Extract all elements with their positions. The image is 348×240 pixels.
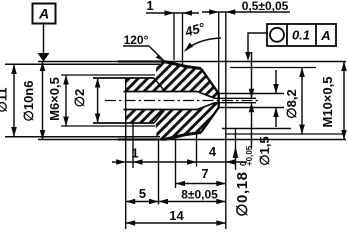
bore diam2 top [124, 91, 198, 93]
tolerance frame leader with arrow [248, 33, 267, 58]
hatched section lower left band [126, 110, 166, 124]
counterbore bottom face (orifice plate) [217, 94, 219, 108]
svg-text:∅0,18: ∅0,18 [234, 171, 251, 216]
svg-text:0.1: 0.1 [292, 28, 310, 43]
top dimension 1: extension lines [173, 13, 175, 60]
bottom row4: dim 14 [126, 222, 226, 224]
svg-text:14: 14 [169, 208, 184, 223]
tolerance frame [267, 24, 336, 46]
diam8.2 extension top [230, 67, 316, 69]
extension line dim 1 right [132, 123, 134, 168]
dimension diam2 line with arrows [97, 78, 99, 123]
45deg leader arc with arrow [185, 38, 221, 51]
svg-text:0,5±0,05: 0,5±0,05 [242, 0, 289, 13]
svg-text:120°: 120° [124, 33, 149, 47]
M6 hole line bottom [93, 122, 154, 124]
extension line diam10n6 bottom long [38, 139, 346, 141]
extension line thread end [158, 140, 160, 205]
centerline [105, 100, 258, 102]
datum A filled triangle [38, 53, 50, 62]
svg-text:45°: 45° [182, 19, 207, 39]
bore diam2 bottom [124, 109, 198, 111]
internal cone 120deg top [197, 92, 215, 99]
svg-text:1: 1 [146, 0, 153, 13]
roundness circle symbol [270, 28, 284, 42]
diam8.2 extension bottom [225, 133, 345, 135]
svg-text:∅1,5: ∅1,5 [257, 136, 272, 165]
svg-text:7: 7 [201, 166, 208, 181]
extension line left end face [125, 123, 127, 229]
svg-text:5: 5 [139, 186, 146, 201]
counterbore line top diam1.5 with extension right [219, 93, 284, 95]
top dimension 0.5: extension lines [218, 12, 220, 93]
part outline: nose chamfer bottom 45deg [201, 107, 219, 132]
hatched section upper left band [126, 78, 166, 92]
svg-text:M6×0,5: M6×0,5 [47, 77, 62, 121]
extension line cone start [196, 134, 198, 167]
internal cone 120deg bottom [197, 103, 215, 110]
extension line diam11 bottom [5, 136, 160, 138]
hatch left edge at section start [125, 78, 127, 123]
svg-text:∅11: ∅11 [0, 87, 10, 112]
part outline: nose chamfer top 45deg [201, 69, 219, 94]
thread end step top [154, 78, 165, 92]
svg-text:8±0,05: 8±0,05 [181, 188, 218, 202]
dimension M6x0.5 line with arrows [65, 75, 67, 126]
svg-text:∅2: ∅2 [72, 89, 87, 108]
svg-text:1: 1 [131, 146, 138, 161]
part outline: top surface thick [118, 60, 164, 62]
label leader diam0,18 [235, 128, 237, 170]
bottom row1: dim 1 (outside arrows) and dim 4 [112, 161, 247, 163]
bottom row3: dim 5 [126, 201, 159, 203]
dimension diam0.18 outside arrows [251, 52, 253, 98]
dimension M10x0.5 line with arrows [343, 62, 345, 140]
svg-text:4: 4 [209, 144, 217, 159]
dimension diam11 line with arrows [13, 64, 15, 136]
thread end step bottom [154, 110, 165, 124]
M6 thread crest top [61, 74, 155, 76]
datum A box [33, 4, 56, 24]
bottom row3: dim 8±0,05 [159, 201, 226, 203]
svg-text:0: 0 [239, 161, 248, 166]
top dimension 0.5: line and outside arrows [202, 11, 290, 13]
dimension diam8.2 line with arrows [301, 68, 303, 135]
datum A leader line [43, 24, 45, 53]
hatched section upper main [156, 62, 219, 98]
part outline: top cone from body to thread [164, 62, 201, 69]
svg-text:∅8,2: ∅8,2 [284, 89, 299, 118]
svg-text:M10×0,5: M10×0,5 [320, 77, 335, 128]
extension line diam11 top [5, 63, 160, 65]
extension line dim 7 left [175, 140, 177, 188]
label diam0,18 with tolerance stack [234, 145, 254, 216]
orifice line top diam0.18 with extension right [215, 97, 257, 99]
part outline: bottom cone from body to thread [164, 133, 201, 140]
counterbore line bottom diam1.5 with extension right [219, 107, 284, 109]
hatched section lower main [156, 103, 219, 139]
dimension diam10n6 line with arrows [42, 62, 44, 140]
top dimension 1: line and outside arrows [146, 12, 199, 14]
extension line diam10n6 top long [38, 61, 346, 63]
part outline: bottom surface thick [118, 138, 164, 140]
svg-text:∅10n6: ∅10n6 [21, 81, 36, 122]
dimension diam1.5 outside arrows [275, 70, 277, 94]
svg-text:A: A [320, 28, 330, 43]
bottom row2: dim 7 [176, 183, 226, 185]
orifice line bottom diam0.18 with extension right [215, 102, 257, 104]
extension line right mid [222, 128, 291, 130]
M6 hole line top [93, 77, 154, 79]
120deg label leader [123, 45, 149, 47]
svg-text:A: A [38, 6, 49, 22]
M6 thread crest bottom [61, 125, 155, 127]
